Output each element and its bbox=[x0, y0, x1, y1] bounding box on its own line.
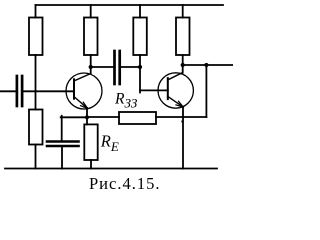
wire: Q1 collector up bbox=[90, 67, 92, 74]
resistor R2 (lower bias divider, Q1) bbox=[29, 91, 43, 168]
wire: CE top lead bbox=[61, 116, 63, 141]
resistor R1 (upper bias divider, Q1) bbox=[29, 5, 43, 91]
wire: Q1 collector to C2 bbox=[91, 66, 114, 68]
Q1 emitter arrowhead bbox=[81, 102, 88, 108]
wire: Q1 emitter down bbox=[86, 108, 88, 117]
node: Q2 collector junction bbox=[181, 63, 185, 67]
resistor Rk1 (Q1 collector load) bbox=[84, 5, 98, 67]
wire: R33 to emitter node bbox=[87, 116, 119, 118]
wire: output to right edge bbox=[183, 64, 233, 66]
svg-text:Рис.4.15.: Рис.4.15. bbox=[89, 174, 160, 193]
resistor Rb2 (Q2 base bias) bbox=[133, 5, 147, 67]
resistor RE (Q1 emitter) bbox=[84, 117, 97, 168]
wire: C2 to Q2 base node bbox=[121, 66, 140, 68]
wire: to Q2 base bbox=[140, 89, 168, 91]
transistor Q1 bbox=[66, 73, 102, 109]
wire: Q2 emitter down to ground bbox=[182, 107, 184, 169]
node: Q1 emitter junction bbox=[85, 115, 89, 119]
wire: CE bottom lead bbox=[61, 147, 63, 168]
wire: ground bottom rail bbox=[5, 168, 217, 170]
capacitor CE (emitter bypass) bbox=[47, 142, 79, 147]
wire: emitter node left to CE bbox=[61, 116, 87, 118]
node: small nub on Q2 emitter bbox=[181, 120, 183, 122]
capacitor C2 (interstage coupling) bbox=[115, 51, 120, 84]
resistor R33 (feedback) bbox=[119, 112, 156, 124]
wire: C1 to Q1 base bbox=[23, 90, 74, 92]
wire: +V top supply rail bbox=[36, 4, 224, 6]
node: Q1 collector junction bbox=[89, 65, 93, 69]
wire: base node riser down bbox=[139, 67, 141, 93]
wire: Q2 collector up bbox=[182, 65, 184, 73]
Q2 emitter arrowhead bbox=[176, 101, 183, 107]
transistor Q2 bbox=[158, 73, 193, 109]
wire: feedback riser bbox=[205, 65, 207, 117]
node: Q2 base bias junction bbox=[138, 65, 142, 69]
capacitor C1 (input coupling) bbox=[17, 76, 22, 106]
wire: input lead bbox=[0, 90, 16, 92]
node: feedback tap junction bbox=[204, 63, 208, 67]
wire: feedback horizontal right segment bbox=[156, 116, 206, 118]
resistor Rk2 (Q2 collector load) bbox=[176, 5, 190, 65]
